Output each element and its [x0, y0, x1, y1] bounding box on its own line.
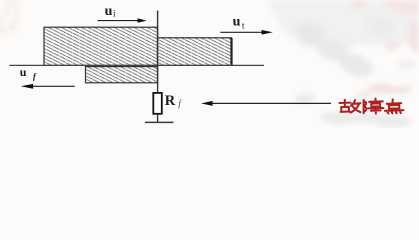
- char 点: [385, 99, 403, 113]
- fault-point arrow: [201, 101, 331, 106]
- label u_t: [233, 15, 245, 31]
- wire below resistor: [157, 114, 159, 123]
- arrow u_f: [21, 84, 75, 89]
- svg-text:R: R: [165, 93, 176, 109]
- char 故: [340, 100, 361, 113]
- char 障: [364, 99, 384, 114]
- big hatched rect (input block): [44, 27, 158, 65]
- center vertical wire: [157, 11, 159, 94]
- label u_f: [20, 65, 37, 81]
- label R_f: [165, 93, 183, 110]
- resistor Rf body: [153, 93, 162, 114]
- axis line: [9, 64, 264, 66]
- label u_i: [105, 4, 116, 19]
- arrow u_i: [98, 18, 147, 22]
- arrow u_t: [220, 30, 272, 35]
- right hatched rect (output block): [158, 38, 232, 66]
- svg-text:u: u: [105, 4, 113, 19]
- red label 故障点 (fault point): [340, 99, 404, 114]
- ground: [145, 121, 174, 123]
- bottom hatched rect (feedback block): [86, 67, 158, 83]
- svg-text:u: u: [20, 65, 27, 79]
- svg-text:u: u: [233, 15, 241, 30]
